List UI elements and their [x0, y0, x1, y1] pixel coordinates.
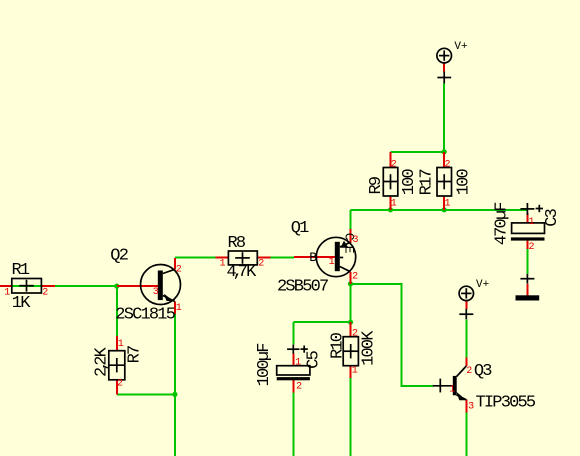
svg-text:2: 2 — [445, 160, 451, 171]
svg-text:4,7K: 4,7K — [227, 263, 258, 282]
svg-text:2: 2 — [352, 329, 358, 340]
svg-text:R9: R9 — [367, 176, 386, 194]
svg-text:Q1: Q1 — [291, 219, 309, 238]
svg-text:3: 3 — [468, 402, 474, 413]
svg-text:2SB507: 2SB507 — [277, 277, 328, 296]
svg-text:100: 100 — [400, 168, 419, 195]
svg-text:R10: R10 — [329, 332, 348, 359]
svg-text:100K: 100K — [359, 330, 378, 366]
svg-text:R8: R8 — [228, 234, 246, 253]
svg-text:2: 2 — [117, 378, 123, 389]
svg-text:1: 1 — [329, 257, 335, 268]
svg-text:R1: R1 — [12, 261, 30, 280]
svg-text:V+: V+ — [476, 279, 489, 291]
svg-text:1: 1 — [118, 339, 124, 350]
svg-text:V+: V+ — [454, 41, 467, 53]
svg-text:1: 1 — [445, 199, 451, 210]
svg-text:1: 1 — [176, 303, 182, 314]
svg-text:1: 1 — [4, 288, 10, 299]
svg-text:2: 2 — [529, 242, 535, 253]
svg-text:R17: R17 — [418, 169, 437, 195]
svg-text:2: 2 — [176, 264, 182, 275]
svg-text:1: 1 — [449, 385, 455, 396]
svg-text:100µF: 100µF — [255, 344, 274, 387]
svg-text:2: 2 — [42, 288, 48, 299]
svg-text:2: 2 — [352, 272, 358, 283]
svg-text:1: 1 — [391, 199, 397, 210]
svg-text:E: E — [341, 246, 356, 254]
svg-text:B: B — [309, 250, 317, 265]
svg-text:2: 2 — [466, 366, 472, 377]
svg-text:2,2K: 2,2K — [92, 346, 111, 377]
svg-text:TIP3055: TIP3055 — [476, 393, 536, 412]
svg-text:100: 100 — [455, 168, 474, 195]
svg-text:C5: C5 — [305, 350, 324, 368]
svg-text:1: 1 — [295, 358, 301, 369]
svg-text:Q3: Q3 — [474, 362, 492, 381]
svg-text:1: 1 — [529, 217, 535, 228]
svg-text:2SC1815: 2SC1815 — [115, 306, 175, 325]
svg-text:R7: R7 — [126, 346, 145, 363]
svg-text:1: 1 — [352, 366, 358, 377]
svg-text:1K: 1K — [12, 294, 31, 313]
svg-text:2: 2 — [391, 160, 397, 171]
svg-text:Q2: Q2 — [110, 247, 127, 266]
svg-text:470µF: 470µF — [492, 203, 511, 246]
svg-text:2: 2 — [258, 258, 264, 269]
svg-text:3: 3 — [153, 287, 159, 298]
svg-text:2: 2 — [296, 382, 302, 393]
svg-text:C3: C3 — [543, 208, 562, 226]
svg-text:3: 3 — [353, 235, 359, 246]
svg-text:1: 1 — [220, 259, 226, 270]
